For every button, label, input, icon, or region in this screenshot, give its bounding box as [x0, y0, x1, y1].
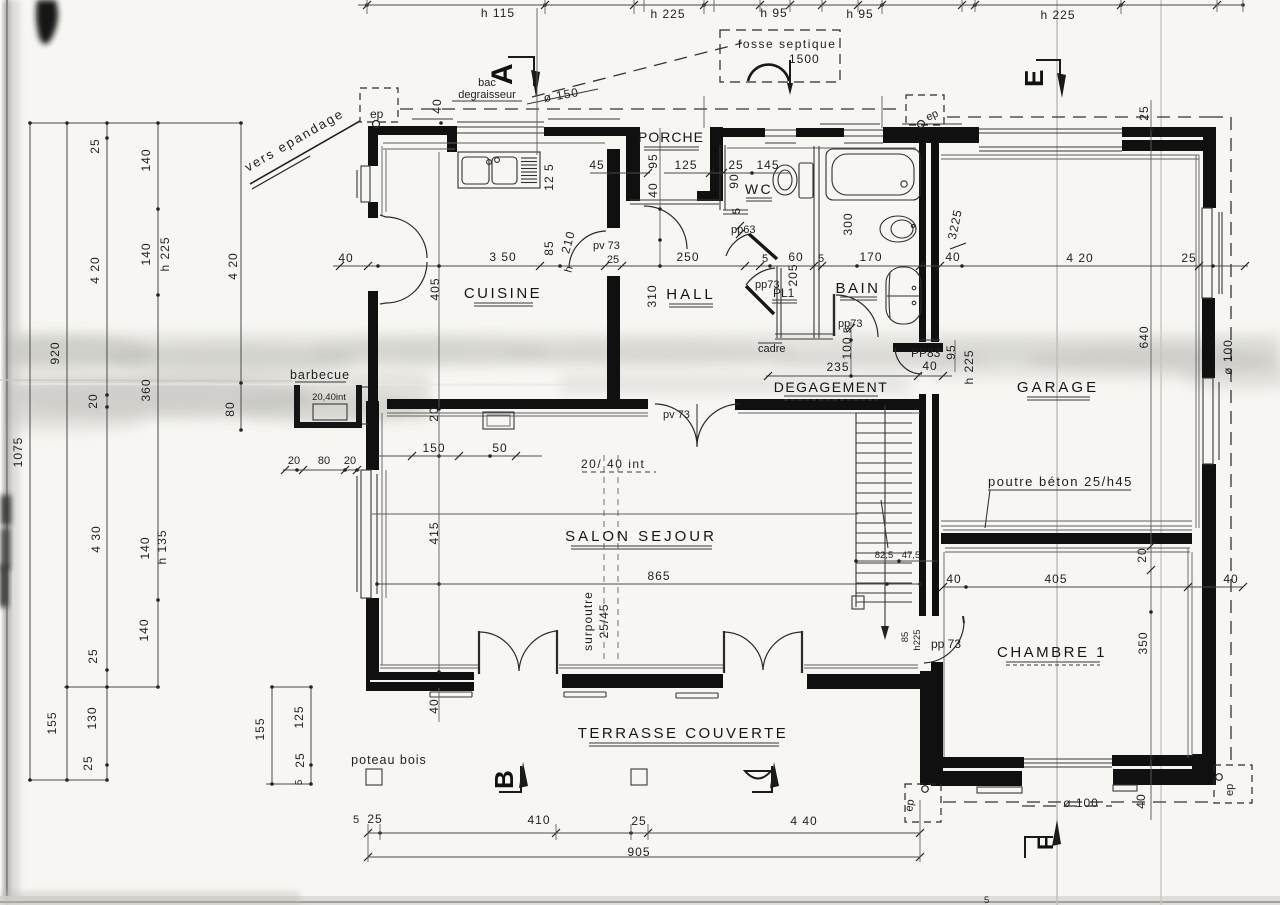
section mark F [1025, 820, 1061, 858]
scan band left lower [0, 372, 430, 420]
door: chambre pp73 arc [924, 616, 964, 663]
left edge dark blobs [1, 495, 11, 525]
wall: porch right jamb step [697, 191, 713, 201]
finish line: salon north interior [387, 413, 920, 416]
svg-text:865: 865 [647, 569, 670, 583]
svg-text:155: 155 [45, 711, 59, 734]
top-left black blob [36, 0, 58, 45]
svg-text:5: 5 [353, 814, 359, 826]
svg-text:40: 40 [646, 182, 660, 197]
svg-text:E: E [1019, 70, 1049, 87]
wall: left exterior upper [368, 126, 378, 166]
svg-text:B: B [489, 770, 519, 789]
door: bain leaf and arc pp73 [834, 294, 878, 337]
svg-text:25: 25 [86, 648, 100, 663]
svg-text:pv 73: pv 73 [663, 409, 690, 421]
svg-text:25: 25 [88, 138, 102, 153]
svg-text:barbecue: barbecue [290, 368, 350, 382]
bidet [880, 216, 916, 242]
scan band right [930, 342, 1280, 380]
svg-text:4 20: 4 20 [1066, 251, 1093, 265]
svg-text:ø 100: ø 100 [1221, 339, 1235, 375]
ep box top right [906, 95, 944, 128]
svg-text:90: 90 [727, 173, 741, 188]
svg-text:300: 300 [841, 212, 855, 235]
fosse septique arc symbol [748, 60, 793, 95]
svg-text:ep: ep [1224, 784, 1236, 796]
finish line: garage right interior [1196, 155, 1199, 528]
ep box bottom right [1214, 765, 1252, 803]
svg-text:640: 640 [1137, 325, 1151, 348]
svg-text:155: 155 [253, 717, 267, 740]
wall: salon south right [807, 674, 941, 689]
double vanity basin [886, 267, 921, 324]
finish line: chambre north interior [945, 548, 1190, 552]
svg-text:25: 25 [631, 814, 646, 828]
svg-text:95: 95 [944, 344, 958, 359]
left line 420/80 [240, 123, 242, 430]
finish line: kitchen top interior [383, 143, 605, 149]
scan band across middle [0, 334, 1280, 366]
finish line: chambre east interior [1188, 548, 1192, 758]
svg-text:47,5: 47,5 [902, 550, 921, 561]
wall: bath/garage double wall bar 1 [919, 140, 926, 342]
window: left wall kitchen [357, 166, 370, 202]
threshold: salon door 3 [676, 693, 718, 698]
wall: terrace east / salon SE corner [920, 671, 936, 785]
svg-text:40: 40 [922, 359, 937, 373]
solid line under diam 150 [527, 89, 598, 104]
threshold: salon door 2 [564, 692, 606, 697]
closet PL1 partitions [758, 266, 833, 343]
svg-text:h 225: h 225 [650, 7, 685, 21]
threshold: chambre window left [977, 787, 1022, 793]
wall: top segment kitchen-to-porch [544, 127, 640, 136]
wall: left salon lower / SW corner [366, 598, 379, 690]
wall: top segment between windows [796, 128, 844, 137]
svg-text:170: 170 [859, 250, 882, 264]
finish line: garage top interior [941, 155, 1199, 159]
wall: stair east double bar 1 [919, 394, 926, 616]
svg-text:20,40int: 20,40int [312, 392, 346, 403]
ep box top left [360, 88, 398, 128]
stair arrow [881, 626, 889, 640]
svg-text:1075: 1075 [11, 437, 25, 468]
barbecue [297, 385, 368, 425]
porch floor lines [630, 200, 719, 204]
wall: salon south middle [562, 674, 723, 688]
finish line: kitchen left interior [382, 146, 386, 215]
svg-text:905: 905 [627, 845, 650, 859]
svg-text:140: 140 [138, 536, 152, 559]
svg-text:3 50: 3 50 [489, 250, 516, 264]
door: porch entrance arc [644, 206, 687, 249]
svg-text:60: 60 [788, 250, 803, 264]
wall: right exterior lower [1202, 464, 1216, 780]
door: closet PL1 diagonal leaf [746, 268, 775, 314]
wall: kitchen/salon separator left [387, 399, 648, 409]
wall: left salon upper [366, 401, 379, 470]
svg-text:h 115: h 115 [481, 6, 515, 20]
svg-text:125: 125 [292, 705, 306, 728]
vers epandage double line [250, 121, 360, 189]
svg-text:degraisseur: degraisseur [458, 89, 516, 101]
svg-text:20: 20 [344, 455, 356, 467]
svg-text:TERRASSE COUVERTE: TERRASSE COUVERTE [578, 725, 789, 742]
svg-text:ep: ep [903, 798, 917, 812]
svg-text:45: 45 [589, 158, 604, 172]
svg-text:25: 25 [367, 812, 382, 826]
svg-text:82,5: 82,5 [875, 550, 894, 561]
svg-text:h 95: h 95 [760, 6, 787, 20]
degagement dim line [766, 375, 952, 377]
terrace post 1 [366, 769, 382, 785]
chambre bottom dims [1022, 805, 1112, 807]
svg-text:h 95: h 95 [846, 7, 873, 21]
left line chain 25/420/20/430/130/25 [106, 123, 108, 780]
svg-text:BAIN: BAIN [835, 280, 880, 297]
threshold: chambre window right [1113, 785, 1137, 791]
wall: garage top inner [1122, 140, 1203, 151]
wall: left exterior below window [368, 202, 378, 218]
svg-text:25: 25 [293, 752, 307, 767]
svg-text:bac: bac [478, 77, 496, 89]
svg-text:5: 5 [294, 779, 305, 786]
svg-text:405: 405 [428, 277, 442, 300]
door: WC diagonal leaf pp63 [726, 234, 777, 259]
svg-text:20: 20 [86, 393, 100, 408]
dashed diagonal to fosse septique [532, 43, 742, 97]
wall: chambre south upper-right bar [1112, 755, 1194, 766]
svg-text:130: 130 [85, 706, 99, 729]
finish line: salon left interior [382, 413, 386, 665]
dashed bottom run [943, 801, 1212, 803]
top dimension witness stubs [367, 0, 1243, 14]
window: bath top [820, 124, 962, 143]
svg-text:SALON SEJOUR: SALON SEJOUR [565, 528, 717, 545]
dashed corner to right side [1210, 117, 1231, 761]
svg-text:140: 140 [137, 618, 151, 641]
svg-text:920: 920 [48, 341, 62, 364]
svg-text:5: 5 [818, 253, 824, 265]
svg-text:4 40: 4 40 [790, 814, 817, 828]
wall: top segment at WC [723, 128, 765, 137]
wall: bain south [893, 343, 943, 352]
wall: top kitchen segment [368, 126, 457, 135]
horizontal crease across band [0, 384, 740, 385]
svg-text:5: 5 [731, 208, 743, 214]
wall: top segment bath block [883, 127, 979, 143]
door: garage PP83 arc [895, 348, 922, 374]
svg-text:ø 100: ø 100 [1063, 796, 1099, 810]
svg-text:350: 350 [1136, 631, 1150, 654]
wall: chambre south lower-left bar [931, 771, 1022, 786]
wall: degagement south [735, 399, 926, 410]
WC west partition [720, 145, 748, 214]
wall: garage top outer [1122, 127, 1216, 137]
svg-text:25: 25 [728, 158, 743, 172]
door: left wall double leaf arcs [380, 215, 427, 304]
svg-text:140: 140 [139, 148, 153, 171]
svg-text:12 5: 12 5 [542, 163, 556, 190]
svg-text:250: 250 [676, 250, 699, 264]
top dimension line [358, 4, 1243, 6]
svg-text:h 225: h 225 [158, 236, 172, 271]
svg-text:h225: h225 [912, 629, 923, 650]
window: right wall upper (garage) [1202, 208, 1222, 298]
connectors [30, 122, 241, 124]
svg-text:pp63: pp63 [731, 224, 755, 236]
svg-text:GARAGE: GARAGE [1017, 379, 1099, 396]
wall: porch right pillar [710, 127, 723, 201]
svg-text:pv 73: pv 73 [593, 240, 620, 252]
wall: chambre south upper-left bar [940, 757, 1024, 768]
svg-text:fosse septique: fosse septique [738, 37, 836, 51]
finish line: poutre beam lines [941, 521, 1192, 530]
svg-text:h 135: h 135 [155, 529, 169, 564]
svg-text:80: 80 [223, 401, 237, 416]
svg-text:5: 5 [984, 895, 989, 905]
svg-text:25: 25 [607, 254, 619, 266]
scan mottling [0, 335, 1280, 433]
left page edge [0, 0, 5, 905]
witness: full-height fold ink line [1150, 100, 1152, 820]
svg-text:25: 25 [1137, 105, 1151, 120]
wall: chambre south lower-right bar [1113, 769, 1216, 785]
svg-text:h 225: h 225 [1040, 8, 1075, 22]
finish line: bath top interior [727, 147, 916, 149]
wall: kitchen/hall separator upper [607, 149, 620, 228]
window: WC top [765, 130, 796, 143]
dashed line top right run [947, 116, 1210, 118]
svg-text:PP83: PP83 [911, 346, 941, 360]
wall: right exterior top [1203, 127, 1216, 208]
toilet WC [773, 163, 813, 198]
svg-text:235: 235 [826, 360, 849, 374]
section mark B [489, 762, 528, 792]
svg-text:85: 85 [542, 240, 556, 255]
ep box bottom left [903, 784, 941, 822]
svg-text:50: 50 [492, 441, 507, 455]
wall: porch left pillar [626, 127, 640, 201]
svg-text:DEGAGEMENT: DEGAGEMENT [774, 379, 889, 395]
svg-text:4 20: 4 20 [226, 252, 240, 279]
svg-text:pp 73: pp 73 [931, 637, 961, 651]
svg-text:CUISINE: CUISINE [464, 285, 542, 302]
svg-text:20/ 40 int: 20/ 40 int [581, 457, 645, 471]
svg-text:410: 410 [527, 813, 550, 827]
svg-text:20: 20 [288, 455, 300, 467]
door: degagement pv73 double arc [655, 404, 740, 447]
svg-text:HALL: HALL [666, 286, 716, 303]
svg-text:PORCHE: PORCHE [638, 129, 704, 145]
terrace post 2 [631, 769, 647, 785]
wall: stair east double bar 2 [932, 394, 939, 616]
left line 920/155 [66, 123, 68, 780]
window: left wall salon [357, 470, 377, 598]
svg-text:25: 25 [1181, 251, 1196, 265]
svg-text:40: 40 [945, 250, 960, 264]
door: salon french door 1 [479, 630, 557, 674]
svg-text:pp73: pp73 [838, 318, 862, 330]
finish line: chambre west interior [943, 552, 945, 757]
door: salon french door 2 [724, 631, 802, 673]
svg-text:CHAMBRE 1: CHAMBRE 1 [997, 644, 1107, 661]
section mark D half circle [745, 762, 779, 792]
threshold: salon door 1 [430, 692, 472, 697]
chambre 405 dim line [943, 586, 1243, 588]
wall: chambre SE corner [1192, 754, 1216, 785]
svg-text:95: 95 [646, 153, 660, 168]
svg-text:poutre béton 25/h45: poutre béton 25/h45 [988, 474, 1133, 489]
svg-text:40: 40 [1134, 793, 1148, 808]
svg-text:poteau bois: poteau bois [351, 753, 427, 767]
svg-text:WC: WC [745, 181, 773, 197]
svg-text:1500: 1500 [789, 52, 820, 66]
bottom page edge band [0, 896, 1280, 905]
865 dim line [377, 583, 920, 585]
svg-text:ep: ep [370, 107, 384, 121]
svg-text:cadre: cadre [758, 343, 786, 355]
door: kitchen to hall arc [569, 231, 606, 268]
svg-text:surpoutre: surpoutre [581, 591, 595, 651]
wall: chambre west below door [931, 662, 943, 774]
finish line: salon south interior [380, 665, 918, 668]
svg-text:145: 145 [756, 158, 779, 172]
wall: garage/chambre separator [941, 533, 1192, 544]
vertical fold crease 1 [1056, 0, 1058, 905]
svg-text:PL1: PL1 [773, 286, 795, 300]
left line 1075 [29, 123, 31, 780]
svg-text:40: 40 [946, 572, 961, 586]
wall: pillar left of kitchen window [447, 126, 457, 152]
window: chambre south [1024, 759, 1112, 767]
svg-text:h 225: h 225 [962, 349, 976, 384]
horizontal crease left [0, 380, 292, 381]
left line chain 140/140/360/140/140 [157, 123, 159, 687]
svg-text:140: 140 [139, 242, 153, 265]
section mark E [1019, 60, 1066, 98]
svg-text:4 20: 4 20 [88, 256, 102, 283]
svg-text:40: 40 [430, 98, 444, 113]
wall: kitchen/hall separator lower [607, 276, 620, 409]
wall: left exterior mid [368, 291, 378, 401]
scan band degagement [560, 374, 910, 394]
section mark A [486, 57, 540, 97]
svg-text:40: 40 [1223, 572, 1238, 586]
wall: bath/garage double wall bar 2 [931, 140, 939, 342]
witness: porch verticals [660, 96, 882, 268]
window: kitchen top [412, 119, 620, 133]
bathtub [826, 149, 920, 200]
window: garage top [979, 129, 1122, 151]
svg-text:415: 415 [427, 521, 441, 544]
svg-text:20: 20 [427, 406, 441, 421]
wall: salon south left block [366, 672, 474, 691]
svg-text:4 30: 4 30 [89, 525, 103, 552]
svg-text:150: 150 [422, 441, 445, 455]
dashed line top run [400, 108, 903, 110]
svg-text:25: 25 [81, 755, 95, 770]
svg-text:5: 5 [762, 253, 768, 265]
svg-text:360: 360 [139, 378, 153, 401]
svg-text:85: 85 [900, 632, 911, 643]
svg-text:125: 125 [674, 158, 697, 172]
window: right wall garage door [1203, 378, 1219, 464]
fosse septique box [720, 30, 840, 82]
svg-text:310: 310 [645, 284, 659, 307]
WC/bain separator partition [814, 146, 819, 338]
kitchen sink unit [458, 152, 540, 188]
wall: right exterior mid [1202, 298, 1215, 378]
witness: long vertical from top to kitchen [536, 8, 538, 155]
bain east closing piece [919, 339, 940, 341]
svg-text:205: 205 [786, 263, 800, 286]
svg-text:40: 40 [338, 251, 353, 265]
vertical fold crease 2 [1160, 0, 1162, 905]
bottom witness stubs [368, 800, 920, 862]
svg-text:80: 80 [318, 455, 330, 467]
svg-text:405: 405 [1044, 572, 1067, 586]
